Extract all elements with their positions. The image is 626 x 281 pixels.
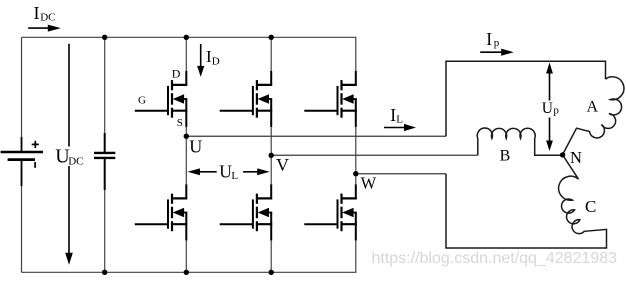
svg-text:https://blog.csdn.net/qq_42821: https://blog.csdn.net/qq_42821983: [372, 250, 618, 267]
svg-text:DC: DC: [40, 12, 55, 24]
svg-text:A: A: [587, 98, 599, 115]
svg-text:p: p: [494, 37, 500, 49]
svg-text:DC: DC: [68, 155, 83, 167]
svg-text:p: p: [553, 105, 559, 117]
svg-text:G: G: [138, 95, 146, 107]
svg-text:I: I: [486, 29, 492, 49]
svg-text:U: U: [542, 100, 553, 117]
svg-text:I: I: [34, 3, 40, 23]
svg-text:V: V: [276, 155, 289, 175]
svg-text:U: U: [189, 137, 202, 157]
svg-text:D: D: [212, 55, 220, 67]
svg-text:N: N: [570, 148, 582, 167]
svg-text:B: B: [500, 147, 511, 164]
svg-text:D: D: [172, 67, 181, 81]
svg-text:W: W: [361, 173, 377, 192]
svg-text:S: S: [177, 117, 183, 129]
svg-text:L: L: [231, 170, 238, 182]
svg-text:C: C: [585, 197, 596, 216]
svg-text:U: U: [219, 162, 232, 182]
svg-text:L: L: [396, 113, 403, 125]
